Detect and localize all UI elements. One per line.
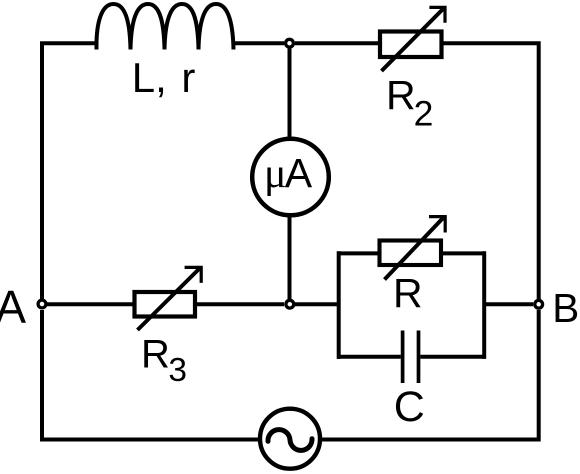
- wire middle node to RC box: [295, 302, 339, 306]
- wire top-left segment: node A up, corner, right to coil: [42, 43, 97, 299]
- ammeter U1: [252, 139, 329, 216]
- resistor R2: [380, 7, 445, 71]
- svg-text:L,r: L,r: [132, 54, 196, 101]
- resistor R: [380, 217, 446, 280]
- svg-text:R: R: [386, 72, 416, 118]
- node B: [535, 300, 543, 308]
- wire R3 to middle node: [197, 302, 285, 306]
- svg-text:A: A: [0, 281, 26, 333]
- wire node A to R3: [47, 302, 133, 306]
- wire R2 to top-right corner and right side down to node B: [444, 43, 539, 299]
- svg-text:C: C: [394, 383, 425, 431]
- node middle junction: [286, 300, 294, 308]
- RC box top wire: [337, 251, 484, 255]
- node A: [38, 300, 46, 308]
- resistor R3: [135, 267, 202, 330]
- svg-text:R: R: [393, 270, 423, 316]
- wire RC box to node B: [484, 302, 533, 306]
- inductor L,r: [96, 4, 233, 50]
- RC box right vertical wire: [482, 251, 486, 359]
- svg-text:2: 2: [414, 94, 434, 134]
- wire top node to R2: [295, 41, 379, 45]
- wire AC source to bottom-left corner and left side up to node A: [42, 310, 258, 440]
- RC box bottom wire right of capacitor: [420, 355, 484, 359]
- wire meter bottom: [288, 216, 292, 299]
- wire meter top: [288, 48, 292, 138]
- svg-text:μA: μA: [264, 150, 313, 197]
- svg-text:R: R: [141, 333, 170, 377]
- RC box bottom wire left of capacitor: [337, 355, 401, 359]
- RC box left vertical wire: [337, 251, 341, 359]
- wire node B down to bottom-right corner and bottom to AC source: [322, 310, 539, 440]
- wire coil to top node: [233, 41, 284, 45]
- svg-text:3: 3: [168, 352, 187, 389]
- node top middle: [286, 39, 294, 47]
- svg-text:B: B: [552, 285, 579, 331]
- capacitor C: [403, 331, 419, 384]
- AC source: [260, 409, 320, 469]
